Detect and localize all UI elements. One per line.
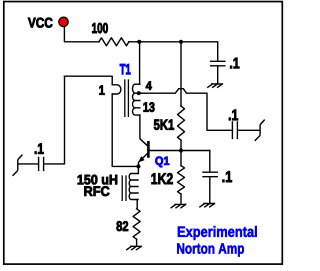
resistor R 5K1: [178, 106, 185, 140]
junction node emitter: [136, 164, 140, 168]
value label .1 (output cap): [229, 110, 238, 121]
node VCC (red terminal dot): [59, 17, 68, 26]
pin 4 label (T1 secondary top): [146, 82, 152, 90]
pin 13 label (T1 secondary bottom): [143, 102, 154, 112]
wire base cap to ground: [209, 177, 211, 203]
resistor R 100: [99, 38, 129, 46]
label VCC: [28, 18, 53, 28]
title text Norton Amp: [177, 243, 244, 256]
wire emitter node to RFC: [137, 166, 139, 173]
wire RFC to 82: [136, 200, 138, 209]
value label .1 (input cap): [35, 144, 44, 154]
wire VCC stem down and left rail to resistor: [64, 27, 99, 42]
wire T1 secondary bottom to Q1 collector: [140, 115, 148, 146]
capacitor C .1 (base bypass): [203, 172, 217, 177]
junction node B (rail / T1 pin4 branch): [137, 40, 141, 44]
ground (1K2): [171, 204, 186, 207]
wire node C to bypass cap branch: [181, 42, 218, 61]
transistor Q1 base bar: [147, 142, 150, 156]
wire node B down to T1 secondary pin 4: [139, 42, 141, 84]
inductor RFC core: [122, 176, 126, 200]
wire bypass cap to ground: [217, 67, 219, 84]
transformer T1 primary winding (pin 1): [112, 85, 121, 94]
value label 5K1: [154, 120, 174, 130]
input connector (open end squiggle): [13, 155, 22, 175]
junction node pin4 tap: [137, 91, 141, 95]
wire T1 primary bottom down to emitter node: [112, 94, 138, 166]
ground (VCC bypass cap): [208, 84, 223, 87]
ground (82 / emitter): [127, 246, 142, 249]
transistor Q1 emitter: [139, 153, 149, 167]
capacitor C .1 (output coupling): [232, 122, 237, 138]
wire node B to node C: [139, 41, 181, 43]
value label 100 (resistor): [92, 23, 108, 33]
wire input connector to cap: [18, 163, 37, 165]
label T1 (transformer): [120, 64, 131, 74]
value label 82: [116, 221, 128, 231]
wire 5K1 to base node: [180, 140, 182, 150]
label Q1 (transistor): [155, 157, 169, 168]
transistor Q1 emitter arrowhead: [138, 156, 144, 162]
transformer T1 secondary winding: [132, 84, 139, 115]
wire output cap to connector: [238, 129, 259, 131]
wire base node down to 1K2: [180, 151, 182, 166]
value label .1 (VCC bypass cap): [230, 58, 239, 68]
wire base node rail (Q1 base to cap branch): [149, 150, 209, 152]
capacitor C .1 (VCC bypass, top right): [211, 61, 225, 66]
value label .1 (base bypass cap): [223, 171, 232, 182]
wire base cap branch down: [209, 151, 211, 172]
inductor L 150uH RFC winding: [129, 174, 138, 200]
pin 1 label (T1 primary): [99, 85, 104, 94]
transformer T1 core: [125, 80, 129, 116]
wire 82 to ground: [136, 239, 138, 246]
junction node base (5K1/1K2/base): [179, 148, 183, 152]
label RFC: [84, 186, 109, 196]
output connector (open end squiggle): [255, 120, 264, 140]
wire T1 primary top to feedback loop: [65, 76, 113, 85]
capacitor C .1 (input coupling): [39, 158, 44, 171]
title text Experimental: [178, 226, 257, 240]
resistor R 1K2: [178, 166, 185, 194]
wire 1K2 to ground: [180, 194, 182, 204]
wire resistor to node B: [129, 41, 139, 43]
resistor R 82: [133, 209, 140, 239]
value label 150 uH: [78, 175, 117, 185]
junction node C (rail / 5K1 branch): [179, 40, 183, 44]
wire node C down to 5K1: [180, 42, 182, 106]
value label 1K2: [152, 173, 173, 184]
wire T1 pin4 tap to output (with hop): [140, 89, 231, 131]
wire feedback left leg down to input: [45, 76, 65, 164]
ground (base bypass cap): [200, 204, 215, 207]
